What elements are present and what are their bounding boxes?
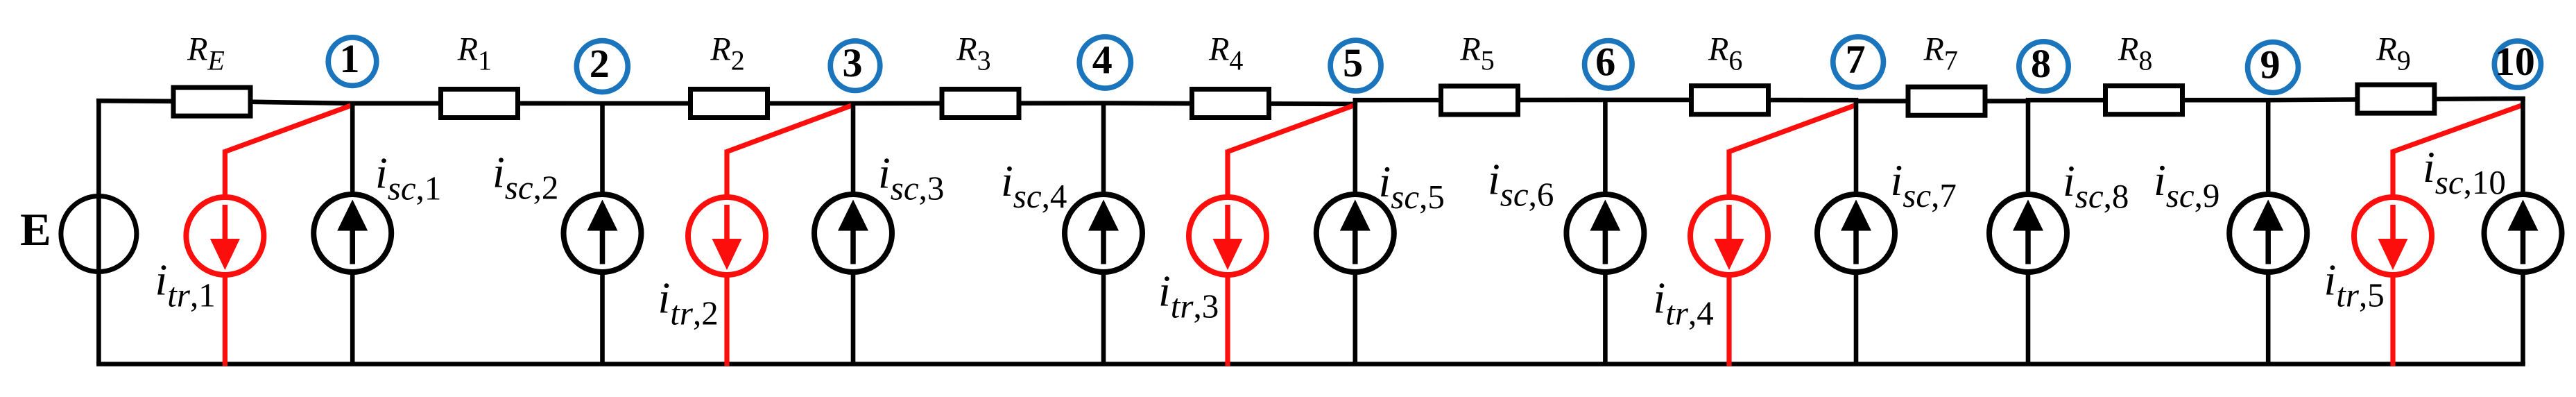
wire bottom rail xyxy=(96,362,2525,366)
wire red diagonal node 1 to i_tr,1 xyxy=(225,105,352,152)
node 7 xyxy=(1833,37,1884,87)
voltage source E xyxy=(61,196,137,272)
svg-text:2: 2 xyxy=(590,41,610,86)
svg-text:E: E xyxy=(20,204,51,255)
node 3 xyxy=(830,40,880,90)
wire node 3 branch lower xyxy=(851,270,856,364)
wire node 10 branch lower xyxy=(2521,270,2525,364)
wire red diagonal node 10 to i_tr,5 xyxy=(2393,105,2523,152)
wire red drop to i_tr,5 xyxy=(2390,150,2395,199)
resistor R9 xyxy=(2358,85,2435,113)
wire i_tr,3 to bottom rail xyxy=(1225,273,1230,366)
wire i_tr,1 to bottom rail xyxy=(223,273,227,366)
wire red diagonal node 5 to i_tr,3 xyxy=(1228,105,1355,152)
wire node 1 branch lower xyxy=(350,270,355,364)
wire node 9 branch lower xyxy=(2266,270,2271,364)
resistor R8 xyxy=(2106,86,2183,115)
resistor R3 xyxy=(942,90,1019,118)
wire red drop to i_tr,2 xyxy=(724,150,729,199)
current source i_tr,4 xyxy=(1690,197,1768,275)
current source i_sc,3 xyxy=(814,194,892,272)
svg-text:7: 7 xyxy=(1846,37,1866,82)
node 4 xyxy=(1079,37,1131,88)
wire node 7 branch lower xyxy=(1854,270,1859,364)
wire red drop to i_tr,4 xyxy=(1726,150,1731,199)
wire node 1 branch upper xyxy=(350,102,355,196)
wire top rail xyxy=(96,99,2525,104)
current source i_sc,8 xyxy=(1989,194,2067,272)
wire node 6 branch lower xyxy=(1603,270,1608,364)
node 6 xyxy=(1585,39,1633,88)
wire node 6 branch upper xyxy=(1603,99,1608,196)
resistor R6 xyxy=(1692,86,1769,115)
wire node 8 branch lower xyxy=(2026,270,2031,364)
current source i_tr,3 xyxy=(1189,197,1266,275)
wire i_tr,5 to bottom rail xyxy=(2390,273,2395,366)
wire node 4 branch lower xyxy=(1101,270,1106,364)
current source i_sc,7 xyxy=(1817,194,1895,272)
wire red diagonal node 7 to i_tr,4 xyxy=(1729,105,1857,152)
resistor R2 xyxy=(691,90,768,118)
wire i_tr,2 to bottom rail xyxy=(724,273,729,366)
resistor R4 xyxy=(1192,90,1269,118)
wire node 2 branch upper xyxy=(600,102,605,196)
svg-text:8: 8 xyxy=(2031,41,2051,86)
resistor R1 xyxy=(441,90,518,118)
wire node 10 branch upper xyxy=(2521,97,2525,196)
current source i_tr,1 xyxy=(186,197,264,275)
wire red diagonal node 3 to i_tr,2 xyxy=(727,105,854,152)
node 5 xyxy=(1330,40,1381,91)
wire node 7 branch upper xyxy=(1854,99,1859,196)
svg-text:3: 3 xyxy=(843,40,863,85)
current source i_sc,9 xyxy=(2229,194,2307,272)
svg-text:1: 1 xyxy=(340,36,360,81)
current source i_sc,4 xyxy=(1065,194,1142,272)
current source i_tr,2 xyxy=(688,197,766,275)
node 10 xyxy=(2494,39,2541,87)
svg-text:9: 9 xyxy=(2260,42,2281,87)
wire left branch to E xyxy=(96,99,101,364)
node 8 xyxy=(2019,41,2068,91)
svg-text:4: 4 xyxy=(1092,37,1113,83)
current source i_sc,10 xyxy=(2484,194,2562,272)
resistor RE xyxy=(173,87,250,116)
resistor R5 xyxy=(1441,86,1518,115)
wire node 3 branch upper xyxy=(851,102,856,196)
wire red drop to i_tr,3 xyxy=(1225,150,1230,199)
current source i_sc,5 xyxy=(1316,194,1394,272)
node 1 xyxy=(328,36,377,85)
svg-text:10: 10 xyxy=(2495,39,2535,84)
wire node 8 branch upper xyxy=(2026,100,2031,196)
wire node 5 branch lower xyxy=(1353,270,1358,364)
wire i_tr,4 to bottom rail xyxy=(1726,273,1731,366)
current source i_sc,2 xyxy=(564,194,642,272)
current source i_sc,6 xyxy=(1566,194,1644,272)
svg-text:5: 5 xyxy=(1343,40,1363,85)
wire node 9 branch upper xyxy=(2266,99,2271,196)
node 9 xyxy=(2248,42,2299,93)
resistor R7 xyxy=(1908,87,1985,115)
svg-text:6: 6 xyxy=(1595,39,1615,84)
wire node 2 branch lower xyxy=(600,270,605,364)
current source i_sc,1 xyxy=(314,194,391,272)
wire node 5 branch upper xyxy=(1353,103,1358,196)
wire red drop to i_tr,1 xyxy=(223,150,227,199)
wire node 4 branch upper xyxy=(1101,102,1106,196)
current source i_tr,5 xyxy=(2354,197,2432,275)
node 2 xyxy=(576,41,628,92)
